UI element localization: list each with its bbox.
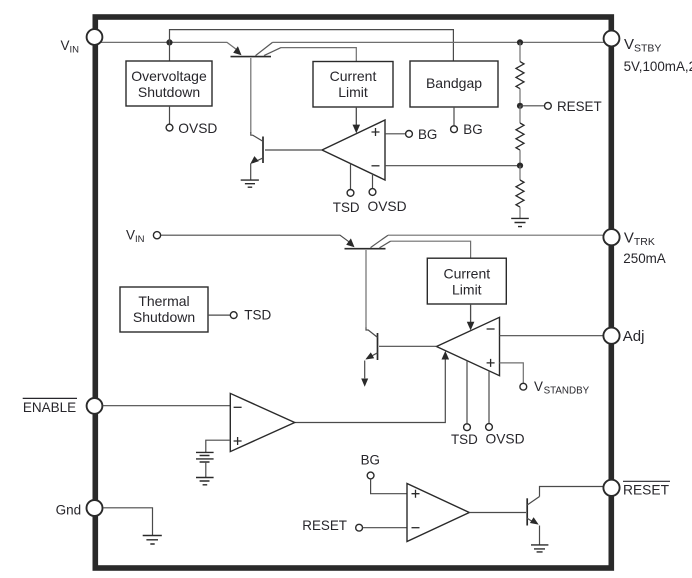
terminal TSD (U1) [333,190,360,216]
ground (Gnd pin) [143,536,162,545]
svg-text:Limit: Limit [452,281,482,297]
svg-text:BG: BG [418,127,437,142]
svg-text:250mA: 250mA [623,251,665,266]
svg-text:ENABLE: ENABLE [23,400,76,415]
pin Adj [603,328,644,345]
svg-text:5V,100mA,2: 5V,100mA,2 [624,59,692,74]
terminal VSTANDBY [520,379,590,397]
terminal TSD (U2) [451,424,478,447]
svg-text:BG: BG [361,452,380,467]
wire Q3 upper emitter rail to VTRK [388,234,604,236]
wire U3 plus input to reference [206,440,231,452]
svg-text:RESET: RESET [557,99,602,114]
block Thermal Shutdown [120,287,208,332]
pin Gnd [56,500,103,518]
svg-text:IN: IN [135,234,145,245]
node A junction dot on VIN rail [166,39,172,45]
terminal VIN (middle input) [126,227,161,245]
svg-text:Gnd: Gnd [56,503,82,518]
block Current Limit (middle) [427,258,506,304]
wire Q1 upper emitter rail to VSTBY [273,41,605,43]
pin VTRK [603,229,665,266]
svg-text:V: V [61,38,70,53]
wire U1 output to Q2 base [265,149,322,151]
svg-text:RESET: RESET [302,518,347,533]
wire BG to U4 plus input [371,479,407,494]
svg-text:V: V [534,379,543,394]
wire Q1 lower emitter rail to Current Limit [281,48,356,62]
terminal BG (reset comparator) [361,452,380,479]
battery reference (U3 plus) [196,452,214,477]
wire ENABLE to U3 minus input [103,405,231,407]
wire U1 OVSD input [372,174,374,189]
op-amp U3 (enable comparator, points right) [230,393,294,451]
svg-text:Shutdown: Shutdown [133,309,195,325]
svg-text:Shutdown: Shutdown [138,84,200,100]
op-amp U1 (error amplifier, points left) [322,120,385,180]
svg-text:BG: BG [463,122,482,137]
svg-text:TSD: TSD [451,432,478,447]
wire Current Limit 2 to op-amp U2 with arrow [467,304,475,330]
node RESET tap junction dot [517,103,523,109]
pin ENABLE [23,398,103,415]
wire U2 minus input to Adj pin [500,335,604,337]
svg-text:Current: Current [330,68,377,84]
svg-text:TSD: TSD [244,308,271,323]
node junction dot divider top [517,39,523,45]
wire to RESET terminal [520,105,544,107]
transistor Q2 driver (top) [250,132,263,180]
ground (Q2 emitter) [241,180,259,187]
svg-text:OVSD: OVSD [178,121,217,136]
wire U1 plus input to BG terminal [385,133,406,135]
svg-text:Current: Current [443,266,490,282]
svg-text:V: V [624,36,634,53]
wire U1 TSD input [350,164,352,190]
terminal RESET (comparator input) [302,518,362,533]
svg-text:RESET: RESET [623,483,670,498]
wire VIN2 to middle pass transistor [161,235,351,243]
wire R1 to node [519,89,521,103]
terminal RESET (divider tap) [545,99,602,114]
wire U2 TSD input [466,361,468,424]
wire VIN rail to pass transistor [101,42,238,50]
wire Gnd pin to ground [103,508,153,536]
resistor R3 (divider bottom) [516,180,524,207]
terminal BG (U1 input) [406,127,438,142]
svg-text:TSD: TSD [333,200,360,215]
svg-text:TRK: TRK [634,236,655,248]
wire U1 minus input to divider [385,165,520,167]
transistor Q1 pass device (top) [231,42,282,132]
emitter arrow of pass transistor Q1 [233,46,241,55]
wire U2 plus input to VSTANDBY terminal [500,363,524,383]
wire OVSD output [169,106,171,124]
wire RESET input to U4 minus input [363,527,407,529]
block Current Limit (top) [313,62,393,108]
wire VIN junction up and over to Bandgap [170,30,454,61]
terminal OVSD (top) [166,121,217,136]
block Overvoltage Shutdown [126,61,212,106]
wire U2 output to Q4 base [379,345,437,347]
transistor Q4 driver (middle) [361,328,377,387]
pin RESET (output) [603,480,670,498]
svg-text:STBY: STBY [634,43,661,55]
wire node to R3 [519,166,521,180]
wire divider top [519,42,521,61]
terminal OVSD (U2) [486,424,525,447]
svg-text:Limit: Limit [338,84,368,100]
svg-text:Overvoltage: Overvoltage [131,68,207,84]
transistor Q3 pass device (middle) [345,235,391,328]
ground (divider) [511,218,529,226]
svg-text:IN: IN [70,44,80,55]
wire U4 output to Q5 base [469,512,526,514]
terminal TSD (thermal shutdown) [230,308,271,323]
terminal OVSD (U1) [368,189,407,215]
transistor Q5 (reset output) [527,487,603,545]
svg-text:OVSD: OVSD [368,199,407,214]
pin VIN (top left) [61,29,103,55]
node feedback junction dot [517,163,523,169]
resistor R2 (divider middle) [516,123,524,150]
svg-text:V: V [126,227,135,242]
wire Bandgap to BG terminal [453,107,455,126]
IC boundary box [95,17,611,568]
op-amp U4 (reset comparator, points right) [407,484,469,542]
block Bandgap [410,61,498,107]
wire Current Limit to op-amp U1 with arrow [353,107,361,133]
pin VSTBY (top right) [604,31,692,75]
svg-text:OVSD: OVSD [486,431,525,446]
terminal BG (bandgap) [451,122,483,137]
emitter arrow of pass transistor Q3 [346,238,354,247]
svg-text:Thermal: Thermal [138,293,189,309]
wire U3 output up into U2 with arrow [295,351,449,423]
wire U2 OVSD input [488,371,490,424]
svg-text:STANDBY: STANDBY [544,386,590,397]
ground (battery reference) [196,478,214,485]
wire VIN junction down to Overvoltage Shutdown [169,42,171,61]
svg-text:Adj: Adj [623,328,645,345]
wire Q3 lower emitter rail to Current Limit 2 [391,241,471,258]
resistor R1 (divider top) [516,62,524,89]
ground (Q5 emitter) [531,545,548,552]
wire R2 to feedback node [519,150,521,165]
wire node to R2 [519,106,521,123]
op-amp U2 (adjust amplifier, points left) [437,317,500,375]
svg-text:V: V [624,229,634,246]
wire R3 to ground [519,207,521,218]
svg-text:Bandgap: Bandgap [426,75,482,91]
wire Thermal Shutdown to TSD terminal [208,314,230,316]
